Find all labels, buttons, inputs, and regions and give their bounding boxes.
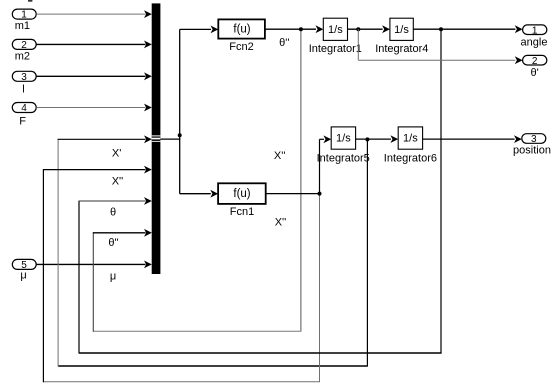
input port 5: [12, 259, 36, 271]
arrowhead port1 into mux: [144, 10, 152, 18]
svg-text:position: position: [513, 144, 551, 156]
svg-text:μ: μ: [110, 271, 116, 283]
wire tee to Fcn1: [180, 193, 211, 195]
wire Integrator6 to output port 3: [423, 138, 515, 140]
svg-text:1: 1: [532, 25, 538, 36]
wire port3 to mux: [36, 75, 145, 77]
input port 1: [12, 9, 36, 21]
arrowhead into Fcn2: [211, 26, 219, 34]
svg-text:Integrator6: Integrator6: [384, 153, 437, 165]
wire Fcn2 to Integrator1: [265, 28, 316, 30]
wire theta' to output port 2: [357, 29, 359, 60]
wire port2 to mux: [36, 43, 145, 45]
arrowhead into Integrator6: [390, 135, 398, 143]
svg-text:1/s: 1/s: [403, 133, 418, 145]
svg-text:l: l: [22, 84, 24, 96]
svg-text:1/s: 1/s: [328, 24, 343, 36]
output port 1: [523, 25, 547, 36]
arrowhead port5 into mux: [144, 261, 152, 269]
wire port4 to mux: [36, 107, 145, 109]
mux bar: [152, 3, 161, 274]
arrowhead port4 into mux: [144, 104, 152, 112]
arrowhead into output port 2: [515, 56, 523, 64]
Fcn2 block: [218, 19, 265, 38]
wire Integrator1 to Integrator4: [348, 28, 383, 30]
Integrator5 block: [331, 127, 355, 149]
svg-text:F: F: [19, 115, 26, 127]
wire tee to Fcn2: [180, 28, 211, 30]
svg-text:f(u): f(u): [233, 188, 250, 200]
arrowhead X'' into mux: [144, 166, 152, 174]
svg-text:θ'': θ'': [279, 37, 289, 49]
Integrator4 block: [390, 18, 413, 40]
svg-text:m1: m1: [15, 20, 30, 32]
svg-text:θ'': θ'': [108, 237, 118, 249]
stray mark top edge: [28, 0, 32, 2]
junction dot theta'' tap: [299, 27, 303, 31]
junction dot X'' tap: [318, 192, 322, 196]
junction dot theta' tap: [356, 27, 360, 31]
svg-text:Fcn2: Fcn2: [229, 41, 253, 53]
svg-text:3: 3: [21, 72, 27, 83]
svg-text:θ: θ: [110, 206, 116, 218]
junction dot theta tap: [439, 27, 443, 31]
arrowhead into Integrator1: [316, 25, 324, 33]
svg-text:4: 4: [21, 103, 27, 114]
arrowhead into output port 1: [515, 25, 523, 33]
svg-text:μ: μ: [20, 270, 26, 282]
wire X' feedback: from Integrator5 output junction down and around to mux: [366, 139, 368, 366]
svg-text:f(u): f(u): [233, 23, 250, 35]
input port 3: [12, 71, 36, 83]
wire X'' up to Integrator5: [319, 139, 321, 193]
output port 2: [523, 55, 547, 66]
output port 3: [522, 134, 546, 145]
svg-text:2: 2: [532, 56, 538, 67]
Fcn1 block: [218, 183, 266, 204]
arrowhead theta'' into mux: [144, 229, 152, 237]
arrowhead into output port 3: [514, 135, 522, 143]
arrowhead X' into mux: [144, 135, 152, 143]
svg-text:X'': X'': [274, 150, 286, 162]
arrowhead into Fcn1: [210, 190, 218, 198]
input port 4: [12, 103, 36, 115]
wire X'' feedback: from Fcn1 output junction down and around to mux: [319, 194, 321, 382]
svg-text:m2: m2: [15, 50, 30, 62]
svg-text:X'': X'': [112, 176, 124, 188]
junction dot X' tap: [365, 137, 369, 141]
svg-text:θ': θ': [530, 67, 538, 79]
wire Fcn1 output to junction: [266, 193, 320, 195]
Integrator1 block: [323, 18, 347, 40]
wire theta'' feedback: from Fcn2 output junction down and around to mux: [300, 29, 302, 331]
svg-text:Fcn1: Fcn1: [230, 206, 254, 218]
arrowhead port2 into mux: [144, 41, 152, 49]
svg-text:angle: angle: [521, 36, 548, 48]
wire tee vertical: [179, 29, 181, 193]
svg-text:1/s: 1/s: [336, 133, 351, 145]
arrowhead theta into mux: [144, 197, 152, 205]
svg-text:Integrator1: Integrator1: [309, 43, 362, 55]
wire port5 to mux: [36, 263, 145, 265]
svg-text:X'': X'': [275, 216, 287, 228]
arrowhead port3 into mux: [144, 72, 152, 80]
svg-text:1/s: 1/s: [394, 24, 409, 36]
wire Integrator4 to output port 1: [413, 28, 515, 30]
Integrator6 block: [398, 127, 422, 149]
mux bar white notch: [152, 135, 161, 141]
wire theta feedback: from Integrator4 output junction down and around to mux: [440, 29, 442, 353]
arrowhead into Integrator4: [382, 25, 390, 33]
arrowhead into Integrator5: [323, 135, 331, 143]
wire mux output: [160, 138, 180, 140]
svg-text:Integrator5: Integrator5: [317, 153, 370, 165]
svg-text:X': X': [112, 147, 121, 159]
input port 2: [12, 39, 36, 51]
junction dot on tee: [178, 133, 182, 137]
svg-text:Integrator4: Integrator4: [375, 43, 428, 55]
wire port1 to mux: [36, 13, 145, 15]
wire Integrator5 to Integrator6: [356, 138, 391, 140]
